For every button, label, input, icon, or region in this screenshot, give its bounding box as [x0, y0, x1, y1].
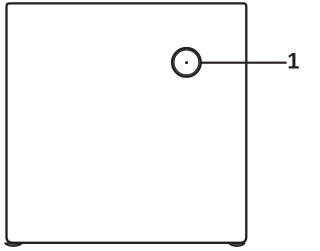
right foot — [228, 243, 245, 248]
left foot — [4, 243, 22, 247]
label 1 — [287, 48, 299, 73]
device body — [7, 3, 247, 242]
svg-text:1: 1 — [287, 48, 299, 73]
leader line to label 1 — [199, 62, 287, 64]
button outer ring — [172, 48, 201, 77]
button center dot — [185, 61, 188, 64]
button inner ring — [174, 50, 199, 75]
